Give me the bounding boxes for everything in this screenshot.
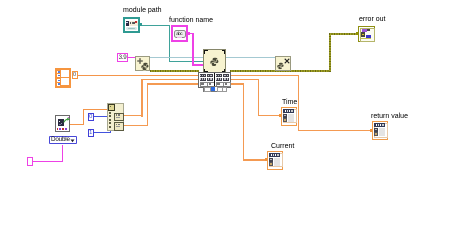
control: module path xyxy=(123,17,140,33)
indicator: error out xyxy=(358,26,375,42)
constant: input cluster xyxy=(55,68,71,88)
wire: Current row3 horizontal xyxy=(230,83,244,84)
wire: 3.9 pink wire xyxy=(128,57,135,58)
constant: 0 (blue) xyxy=(88,113,95,121)
wire: blue 1 vertical jog xyxy=(110,129,111,133)
wire: Time into indicator xyxy=(258,115,281,116)
wire: blue 0 into index array xyxy=(94,116,107,117)
wire: return value row1 horizontal xyxy=(230,75,299,76)
wire: index out1 horizontal xyxy=(123,115,143,116)
node: conversion node xyxy=(55,115,70,132)
wire: Current vertical xyxy=(243,83,244,161)
wire: Current into indicator xyxy=(243,159,267,160)
wire: ring magenta horizontal to pink box xyxy=(33,161,63,162)
function name right nub xyxy=(188,32,190,35)
python node bottom terminal strip xyxy=(204,87,226,91)
label: function name xyxy=(169,17,213,24)
constant: cluster index 0 box xyxy=(72,71,78,79)
wire: return value vertical xyxy=(298,75,299,132)
label: module path xyxy=(123,7,162,14)
wire: index out2 horizontal xyxy=(123,125,148,126)
Current left nub xyxy=(265,158,267,161)
label: Current xyxy=(271,143,294,150)
wire: module path teal wire into python node xyxy=(169,61,204,62)
module path right nub xyxy=(140,23,142,26)
constant: pink box xyxy=(27,157,33,166)
wire: convert node orange vertical xyxy=(83,109,85,126)
output element box 2 xyxy=(114,122,124,131)
wire: session wire open->python xyxy=(150,57,203,58)
control: function name xyxy=(171,25,188,42)
wire: function name magenta into python node xyxy=(192,64,203,66)
Time left nub xyxy=(279,114,281,117)
label: Time xyxy=(282,99,297,106)
center divider xyxy=(214,73,215,87)
indicator: return value xyxy=(372,121,388,140)
node: close python session xyxy=(275,56,291,71)
wire: return value into indicator xyxy=(298,130,372,131)
array input cell xyxy=(108,104,115,111)
node: python node icon xyxy=(203,49,226,73)
wire: index out2 into python row3 xyxy=(147,83,200,84)
output element box 1 xyxy=(114,113,124,122)
wire: ring magenta vertical xyxy=(62,145,63,162)
wire: function name magenta vertical xyxy=(192,33,194,66)
terminal row 1 xyxy=(200,74,206,77)
wire: Time vertical xyxy=(258,79,259,116)
label: error out xyxy=(359,16,385,23)
constant: 1 (blue) xyxy=(88,129,95,137)
wire: convert node orange into index array xyxy=(83,109,108,111)
constant: 3.9 xyxy=(117,53,128,62)
wire: index out2 vertical xyxy=(147,83,148,126)
node: python node terminal block xyxy=(199,73,230,87)
wire: cluster orange into python row1 xyxy=(78,75,199,77)
terminal row 2 xyxy=(200,78,206,81)
indicator: Current xyxy=(267,151,283,170)
cluster row 2 xyxy=(56,78,69,85)
wire: session wire python->close xyxy=(226,57,276,58)
left terminal cells xyxy=(109,112,111,114)
label: return value xyxy=(371,113,408,120)
wire: function name magenta horizontal xyxy=(188,33,194,34)
wire: blue 1 horizontal xyxy=(94,132,111,133)
error out left nub xyxy=(356,32,358,35)
wire: module path teal wire vertical xyxy=(169,25,170,62)
terminal row 3 xyxy=(200,82,208,87)
wire: error dashed open->python xyxy=(150,70,199,71)
wire: module path teal wire horizontal xyxy=(140,25,170,26)
return value left nub xyxy=(370,129,372,132)
wire: error dashed vertical up xyxy=(329,33,330,71)
wire: error dashed python->right xyxy=(230,70,330,71)
node: index array xyxy=(107,103,124,131)
wire: convert node orange out horizontal xyxy=(69,124,84,126)
wire: error dashed into error out xyxy=(329,33,356,34)
wire: index out1 vertical xyxy=(141,79,142,117)
cluster row 1 xyxy=(56,70,69,77)
wire: Time row2 horizontal xyxy=(230,79,259,80)
wire: index out1 into python row2 xyxy=(141,79,199,80)
constant: Double ring xyxy=(49,136,77,145)
node: open python session xyxy=(135,56,150,71)
indicator: Time xyxy=(281,107,297,126)
